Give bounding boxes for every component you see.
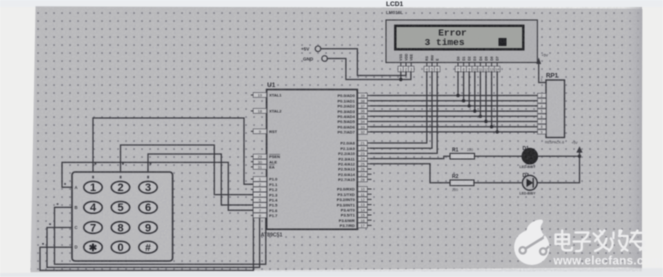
keypad button 5 bbox=[111, 202, 129, 214]
U1 right pin 38 P0.1/AD1 bbox=[367, 100, 371, 102]
wire net AD5 (U1 P0.5 to RP1 and LCD D5) bbox=[371, 121, 538, 123]
junction AD5/D5 bbox=[484, 120, 487, 123]
LCD LCD1 body bbox=[386, 20, 537, 63]
LCD1 display area bbox=[395, 26, 523, 50]
U1 right pin 10 P3.0/RXD bbox=[367, 188, 371, 190]
wire R2 to D3 bbox=[474, 182, 521, 184]
LCD1 display cursor block bbox=[499, 38, 507, 46]
U1 left pin 1 P1.0 bbox=[251, 178, 253, 180]
LCD1 pin number 5 bbox=[431, 63, 433, 67]
U1 right pin 15 P3.5/T1 bbox=[367, 214, 371, 216]
wire net GND (GND terminal to LCD VSS and VEE) bbox=[327, 59, 411, 80]
U1 left pin 19 XTAL1 bbox=[251, 94, 253, 96]
keypad KP1 body bbox=[72, 172, 173, 261]
U1 right pin 32 P0.7/AD7 bbox=[367, 131, 371, 133]
LCD1 pin number 1 bbox=[400, 63, 402, 67]
U1 right pin 22 P2.1/A9 bbox=[367, 147, 371, 149]
wire net AD3 (U1 P0.3 to RP1 and LCD D3) bbox=[371, 110, 538, 112]
wire net COL1 (keypad column 1 to U1 P1.1) bbox=[93, 118, 253, 184]
junction AD1/D1 bbox=[462, 99, 465, 102]
wire net R2IN (U1 P2.4 to R2) bbox=[371, 164, 450, 183]
LCD1 pin number 14 bbox=[496, 63, 498, 67]
U1 left pin 31 EA bbox=[251, 166, 253, 168]
wire net AD2 (U1 P0.2 to RP1 and LCD D2) bbox=[371, 105, 538, 107]
LCD1 pin number 4 bbox=[426, 63, 428, 67]
U1 left pin 5 P1.4 bbox=[251, 199, 253, 201]
keypad column pin mark 1 bbox=[95, 163, 97, 165]
keypad button # bbox=[139, 241, 157, 253]
U1 left pin 2 P1.1 bbox=[251, 183, 253, 185]
keypad row pin mark A bbox=[64, 183, 66, 185]
LCD1 pin number 11 bbox=[479, 63, 481, 67]
RP1 common pin 1 and +5V power arrow bbox=[539, 64, 546, 83]
RP1 pin 8 bbox=[538, 125, 547, 129]
U1 left pin 30 ALE bbox=[251, 161, 253, 163]
U1 right pin 33 P0.6/AD6 bbox=[367, 126, 371, 128]
keypad button 3 bbox=[139, 181, 157, 193]
U1 right pin 23 P2.2/A10 bbox=[367, 152, 371, 154]
wire net ROWD (keypad row D wraps under to U1 P1.2) bbox=[40, 189, 253, 270]
LED D1 (lit, dark) bbox=[522, 148, 538, 164]
keypad column label 1 bbox=[92, 176, 94, 179]
microcontroller U1 AT89C51 body bbox=[267, 90, 358, 230]
U1 right pin 35 P0.4/AD4 bbox=[367, 115, 371, 117]
U1 right pin 24 P2.3/A11 bbox=[367, 158, 371, 160]
LCD1 pin number 6 bbox=[436, 63, 438, 67]
RP1 pin 2 bbox=[538, 93, 547, 97]
power symbol +5V at LED rail bbox=[579, 152, 581, 156]
resistor R1 bbox=[450, 153, 475, 159]
LCD1 pin number 7 bbox=[457, 63, 459, 67]
wire R1 to D1 bbox=[475, 155, 522, 157]
RP1 pin 9 bbox=[538, 130, 547, 134]
U1 right pin 34 P0.5/AD5 bbox=[367, 121, 371, 123]
watermark logo elecfans bbox=[514, 220, 549, 265]
RP1 pin 6 bbox=[538, 114, 547, 118]
wire net E (LCD E to U1 P2.2) bbox=[371, 72, 437, 154]
U1 left pin 8 P1.7 bbox=[251, 214, 253, 216]
keypad column label 3 bbox=[147, 176, 149, 179]
svg-text:www.elecfans.com: www.elecfans.com bbox=[553, 255, 662, 268]
keypad row pin mark B bbox=[57, 203, 59, 205]
keypad column label 2 bbox=[120, 176, 122, 179]
U1 right pin 12 P3.2/INT0 bbox=[367, 198, 371, 200]
wire net AD4 (U1 P0.4 to RP1 and LCD D4) bbox=[371, 115, 538, 117]
watermark text 电子发烧友 bbox=[556, 231, 646, 252]
junction VSS/GND bbox=[399, 78, 402, 81]
wire net AD1 (U1 P0.1 to RP1 and LCD D1) bbox=[371, 100, 538, 102]
wire net R1IN (U1 P2.3 to R1) bbox=[371, 156, 450, 158]
keypad button 9 bbox=[139, 222, 157, 234]
keypad button 0 bbox=[111, 241, 129, 253]
LCD1 pin number 8 bbox=[463, 63, 465, 67]
U1 right pin 27 P2.6/A14 bbox=[367, 173, 371, 175]
resistor pack RP1 body bbox=[546, 80, 565, 138]
keypad button 2 bbox=[111, 181, 129, 193]
RP1 pin 4 bbox=[538, 104, 547, 108]
LCD1 pin number 9 bbox=[468, 63, 470, 67]
wire net VDD (+5V to LCD VDD) bbox=[321, 49, 406, 76]
wire net AD7 (U1 P0.7 to RP1 and LCD D7) bbox=[371, 131, 538, 133]
wire net AD6 (U1 P0.6 to RP1 and LCD D6) bbox=[371, 126, 538, 128]
keypad button ✱ bbox=[84, 241, 102, 253]
wire net ROWB (keypad row B wraps under to U1 P1.7) bbox=[55, 207, 266, 264]
U1 left pin 4 P1.3 bbox=[251, 194, 253, 196]
LCD1 pin number 2 bbox=[405, 63, 407, 67]
U1 right pin 25 P2.4/A12 bbox=[367, 163, 371, 165]
U1 right pin 26 P2.5/A13 bbox=[367, 168, 371, 170]
U1 right pin 39 P0.0/AD0 bbox=[367, 95, 371, 97]
U1 left pin 6 P1.5 bbox=[251, 204, 253, 206]
wire net COL3 (keypad column 3 to U1 P1.5) bbox=[148, 154, 253, 205]
keypad column pin mark 2 bbox=[122, 163, 124, 165]
U1 left pin 9 RST bbox=[251, 130, 253, 132]
junction D1/D3 ground rail bbox=[578, 155, 581, 158]
U1 right pin 17 P3.7/RD bbox=[367, 224, 371, 226]
U1 right pin 36 P0.3/AD3 bbox=[367, 110, 371, 112]
junction AD7/D7 bbox=[496, 130, 499, 133]
wire LCD VSS drop bbox=[400, 72, 402, 80]
wire net ROWC (keypad row C wraps under to U1 P1.4) bbox=[47, 200, 260, 268]
wire net ROWA (keypad row A to U1 P1.6) bbox=[62, 162, 253, 210]
U1 left pin 7 P1.6 bbox=[251, 209, 253, 211]
junction AD0/D0 bbox=[456, 94, 459, 97]
resistor R2 bbox=[450, 180, 474, 186]
keypad button 1 bbox=[84, 181, 102, 193]
wire D1 to ground rail bbox=[538, 155, 580, 157]
U1 left pin 3 P1.2 bbox=[251, 188, 253, 190]
LCD1 pin number 13 bbox=[491, 63, 493, 67]
keypad button 6 bbox=[139, 202, 157, 214]
wire net COL2 (keypad column 2 to U1 P1.3) bbox=[121, 145, 254, 195]
U1 right pin 28 P2.7/A15 bbox=[367, 178, 371, 180]
LCD1 pin number 3 bbox=[410, 63, 412, 67]
keypad button 7 bbox=[84, 222, 102, 234]
junction AD6/D6 bbox=[490, 125, 493, 128]
U1 right pin 16 P3.6/WR bbox=[367, 219, 371, 221]
RP1 pin 7 bbox=[538, 119, 547, 123]
junction AD3/D3 bbox=[473, 109, 476, 112]
U1 right pin 21 P2.0/A8 bbox=[367, 142, 371, 144]
U1 right pin 37 P0.2/AD2 bbox=[367, 105, 371, 107]
RP1 pin 3 bbox=[538, 99, 547, 103]
LCD1 pin number 12 bbox=[485, 63, 487, 67]
junction AD2/D2 bbox=[468, 104, 471, 107]
keypad row pin mark C bbox=[49, 223, 51, 225]
wire net AD0 (U1 P0.0 to RP1 and LCD D0) bbox=[371, 95, 538, 97]
LCD1 pin number 10 bbox=[474, 63, 476, 67]
U1 right pin 14 P3.4/T0 bbox=[367, 209, 371, 211]
U1 right pin 13 P3.3/INT1 bbox=[367, 204, 371, 206]
keypad button 8 bbox=[111, 222, 129, 234]
U1 left pin 29 PSEN bbox=[251, 156, 253, 158]
keypad row pin mark D bbox=[42, 243, 44, 245]
wire net RW (LCD RW to U1 P2.1) bbox=[371, 72, 432, 148]
wire net RS (LCD RS to U1 P2.0) bbox=[371, 72, 427, 143]
wire D3 to ground rail bbox=[537, 156, 579, 183]
RP1 pin 5 bbox=[538, 109, 547, 113]
keypad column pin mark 3 bbox=[150, 163, 152, 165]
junction AD4/D4 bbox=[479, 115, 482, 118]
keypad button 4 bbox=[84, 202, 102, 214]
U1 right pin 11 P3.1/TXD bbox=[367, 193, 371, 195]
LED D3 bbox=[522, 175, 537, 190]
U1 left pin 18 XTAL2 bbox=[251, 110, 253, 112]
